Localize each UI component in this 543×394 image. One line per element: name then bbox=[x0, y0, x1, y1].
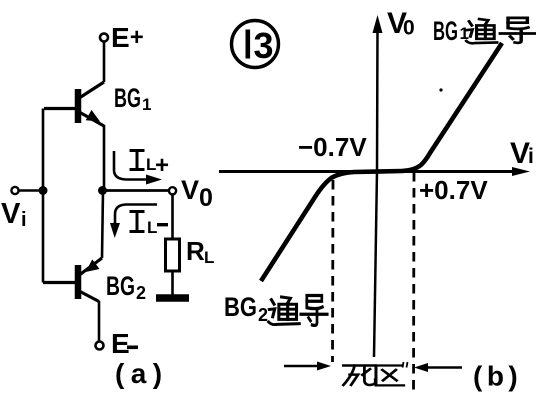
svg-text:0: 0 bbox=[403, 17, 415, 40]
svg-text:BG: BG bbox=[224, 292, 257, 322]
resistor RL bbox=[166, 239, 180, 271]
wire base bus (left vertical) bbox=[42, 109, 45, 283]
svg-text:0: 0 bbox=[199, 184, 213, 212]
svg-text:V: V bbox=[1, 198, 21, 230]
wire Vo to RL bbox=[171, 194, 174, 239]
wire BG1 emitter down to output node bbox=[102, 125, 104, 258]
dashed line at -0.7 bbox=[331, 180, 334, 362]
dead-zone arrow left bbox=[284, 365, 325, 367]
terminal Vo bbox=[169, 187, 176, 194]
label BG1 conduction bbox=[433, 16, 534, 46]
wire Vi to bus bbox=[19, 189, 44, 192]
svg-text:L: L bbox=[147, 218, 157, 237]
figure number 13 bbox=[232, 21, 279, 68]
arrow IL+ bbox=[114, 151, 155, 180]
svg-text:(b): (b) bbox=[473, 361, 522, 392]
node bus junction bbox=[39, 186, 48, 195]
ground bbox=[156, 294, 189, 302]
label BG2 conduction bbox=[224, 292, 327, 325]
svg-text:−0.7V: −0.7V bbox=[298, 132, 367, 162]
wire BG2 collector to E- bbox=[98, 301, 101, 342]
svg-text:2: 2 bbox=[258, 305, 268, 325]
svg-text:1: 1 bbox=[460, 24, 469, 43]
dead-zone arrow right bbox=[420, 366, 462, 368]
wire E+ to BG1 collector bbox=[103, 42, 106, 83]
label dead zone (si qu) bbox=[343, 362, 407, 385]
label IL- bbox=[130, 212, 145, 232]
svg-text:E+: E+ bbox=[111, 22, 144, 53]
dashed line at +0.7 bbox=[412, 172, 415, 394]
terminal E+ bbox=[100, 34, 108, 42]
svg-text:+0.7V: +0.7V bbox=[419, 175, 488, 205]
wire RL to ground bbox=[171, 271, 174, 297]
axis Vi (horizontal) bbox=[219, 170, 524, 173]
transfer curve bbox=[261, 43, 502, 281]
svg-text:(a): (a) bbox=[115, 358, 168, 389]
svg-text:3: 3 bbox=[254, 25, 274, 66]
stray scan dot bbox=[439, 88, 442, 91]
label IL+ bbox=[130, 151, 145, 170]
svg-text:2: 2 bbox=[136, 283, 146, 303]
wire output node to Vo bbox=[102, 189, 169, 192]
transistor BG1 bbox=[44, 82, 104, 126]
arrow IL- bbox=[115, 205, 157, 229]
svg-text:R: R bbox=[186, 236, 205, 266]
terminal Vi bbox=[11, 187, 18, 194]
svg-text:BG: BG bbox=[106, 271, 135, 301]
svg-text:L: L bbox=[204, 248, 214, 267]
svg-text:i: i bbox=[21, 209, 27, 231]
svg-text:V: V bbox=[510, 137, 530, 170]
svg-text:E: E bbox=[111, 328, 130, 359]
svg-text:+: + bbox=[155, 152, 169, 179]
svg-text:V: V bbox=[181, 175, 199, 205]
node output bbox=[98, 186, 107, 195]
svg-text:BG: BG bbox=[433, 16, 458, 46]
axis Vo (vertical) bbox=[374, 28, 378, 357]
svg-text:i: i bbox=[528, 145, 534, 168]
svg-text:1: 1 bbox=[142, 95, 151, 114]
svg-text:BG: BG bbox=[114, 83, 141, 113]
terminal E- bbox=[96, 342, 104, 350]
transistor BG2 bbox=[43, 258, 102, 302]
